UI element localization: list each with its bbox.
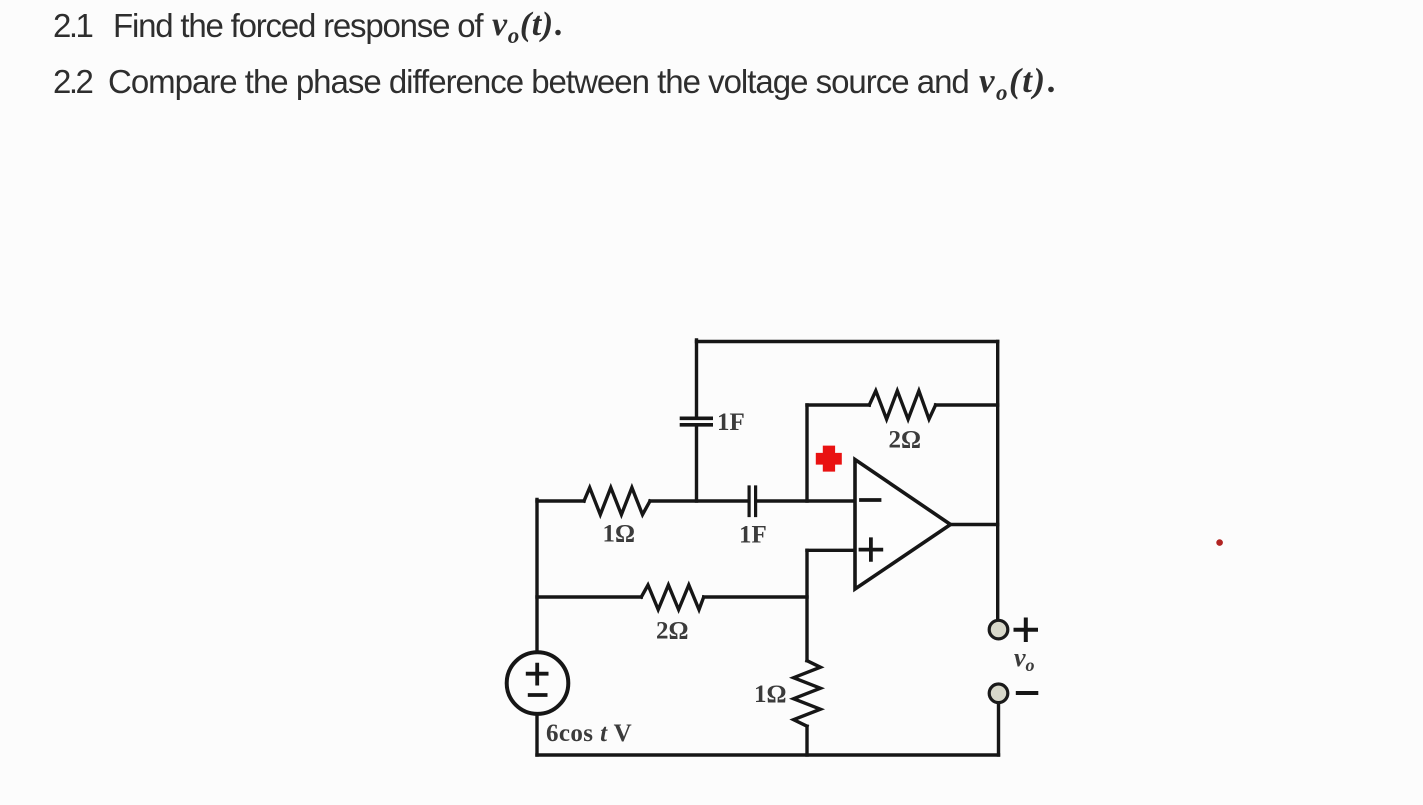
svg-text:1Ω: 1Ω bbox=[603, 521, 636, 548]
voltage source V1 circle bbox=[507, 652, 569, 714]
wire noninverting node vertical down bbox=[805, 550, 808, 660]
svg-text:vo: vo bbox=[1014, 643, 1035, 675]
voltage source V1 plus sign bbox=[528, 665, 547, 684]
output terminal - node bbox=[989, 684, 1008, 703]
svg-text:2Ω: 2Ω bbox=[889, 427, 922, 454]
svg-text:6cos t V: 6cos t V bbox=[546, 720, 632, 747]
op-amp U1 noninverting input plus sign bbox=[861, 539, 882, 560]
voltage source V1 minus sign bbox=[530, 693, 546, 697]
output plus sign label bbox=[1016, 620, 1037, 641]
wire bottom rail bbox=[537, 753, 999, 756]
op-amp U1 inverting input minus sign bbox=[861, 498, 880, 502]
wire feedback horizontal right segment bbox=[936, 403, 998, 406]
problem text line 2.1 bbox=[53, 7, 91, 45]
wire second row right segment bbox=[704, 595, 807, 598]
wire middle row from C2 to op-amp inverting input bbox=[757, 499, 855, 502]
red cross marker (inverting node annotation) bbox=[816, 446, 842, 472]
svg-text:1Ω: 1Ω bbox=[754, 681, 787, 708]
capacitor C2 1F (series, middle row) bbox=[749, 487, 756, 516]
wire second row left segment bbox=[537, 595, 641, 598]
svg-text:1F: 1F bbox=[739, 522, 767, 549]
red dot annotation bbox=[1216, 539, 1223, 546]
wire output - terminal drop bbox=[997, 703, 1000, 756]
label 6cos t V (source value) bbox=[546, 720, 632, 747]
wire right vertical (top wire to output + terminal) bbox=[996, 342, 999, 621]
resistor R3 2ohm (second row) bbox=[641, 585, 703, 610]
svg-text:1F: 1F bbox=[717, 409, 745, 436]
output minus sign label bbox=[1018, 691, 1037, 695]
wire top capacitor branch lower bbox=[695, 427, 698, 502]
wire middle row left segment bbox=[537, 499, 584, 502]
problem text line 2.2 bbox=[53, 63, 91, 101]
label 2ohm (second row resistor) bbox=[656, 618, 689, 645]
label 1ohm (vertical resistor) bbox=[754, 681, 787, 708]
resistor R1 1ohm (series, middle row) bbox=[584, 488, 650, 515]
label vo (output voltage) bbox=[1014, 643, 1035, 675]
label 1ohm (series resistor) bbox=[603, 521, 636, 548]
label 1F (series capacitor) bbox=[739, 522, 767, 549]
wire left vertical lower (source to bottom rail) bbox=[535, 716, 538, 755]
wire left vertical upper (middle row to source) bbox=[535, 500, 538, 651]
wire below R4 to bottom rail bbox=[805, 726, 808, 755]
output terminal + node bbox=[989, 620, 1008, 639]
wire middle row between R1 and C2 bbox=[650, 499, 748, 502]
label 2ohm (feedback resistor) bbox=[889, 427, 922, 454]
wire noninverting input horizontal bbox=[807, 549, 855, 552]
capacitor C1 1F (top, vertical branch) bbox=[682, 418, 712, 425]
op-amp U1 triangle bbox=[855, 460, 951, 590]
wire top loop bbox=[697, 340, 998, 343]
wire top capacitor branch upper bbox=[695, 340, 698, 417]
wire op-amp output bbox=[950, 523, 998, 526]
wire feedback vertical (inverting node up) bbox=[805, 405, 808, 501]
svg-text:2Ω: 2Ω bbox=[656, 618, 689, 645]
resistor R2 2ohm (feedback) bbox=[869, 391, 935, 419]
resistor R4 1ohm (vertical, to ground rail) bbox=[794, 661, 821, 727]
label 1F (top capacitor) bbox=[717, 409, 745, 436]
wire feedback horizontal left segment bbox=[807, 403, 869, 406]
